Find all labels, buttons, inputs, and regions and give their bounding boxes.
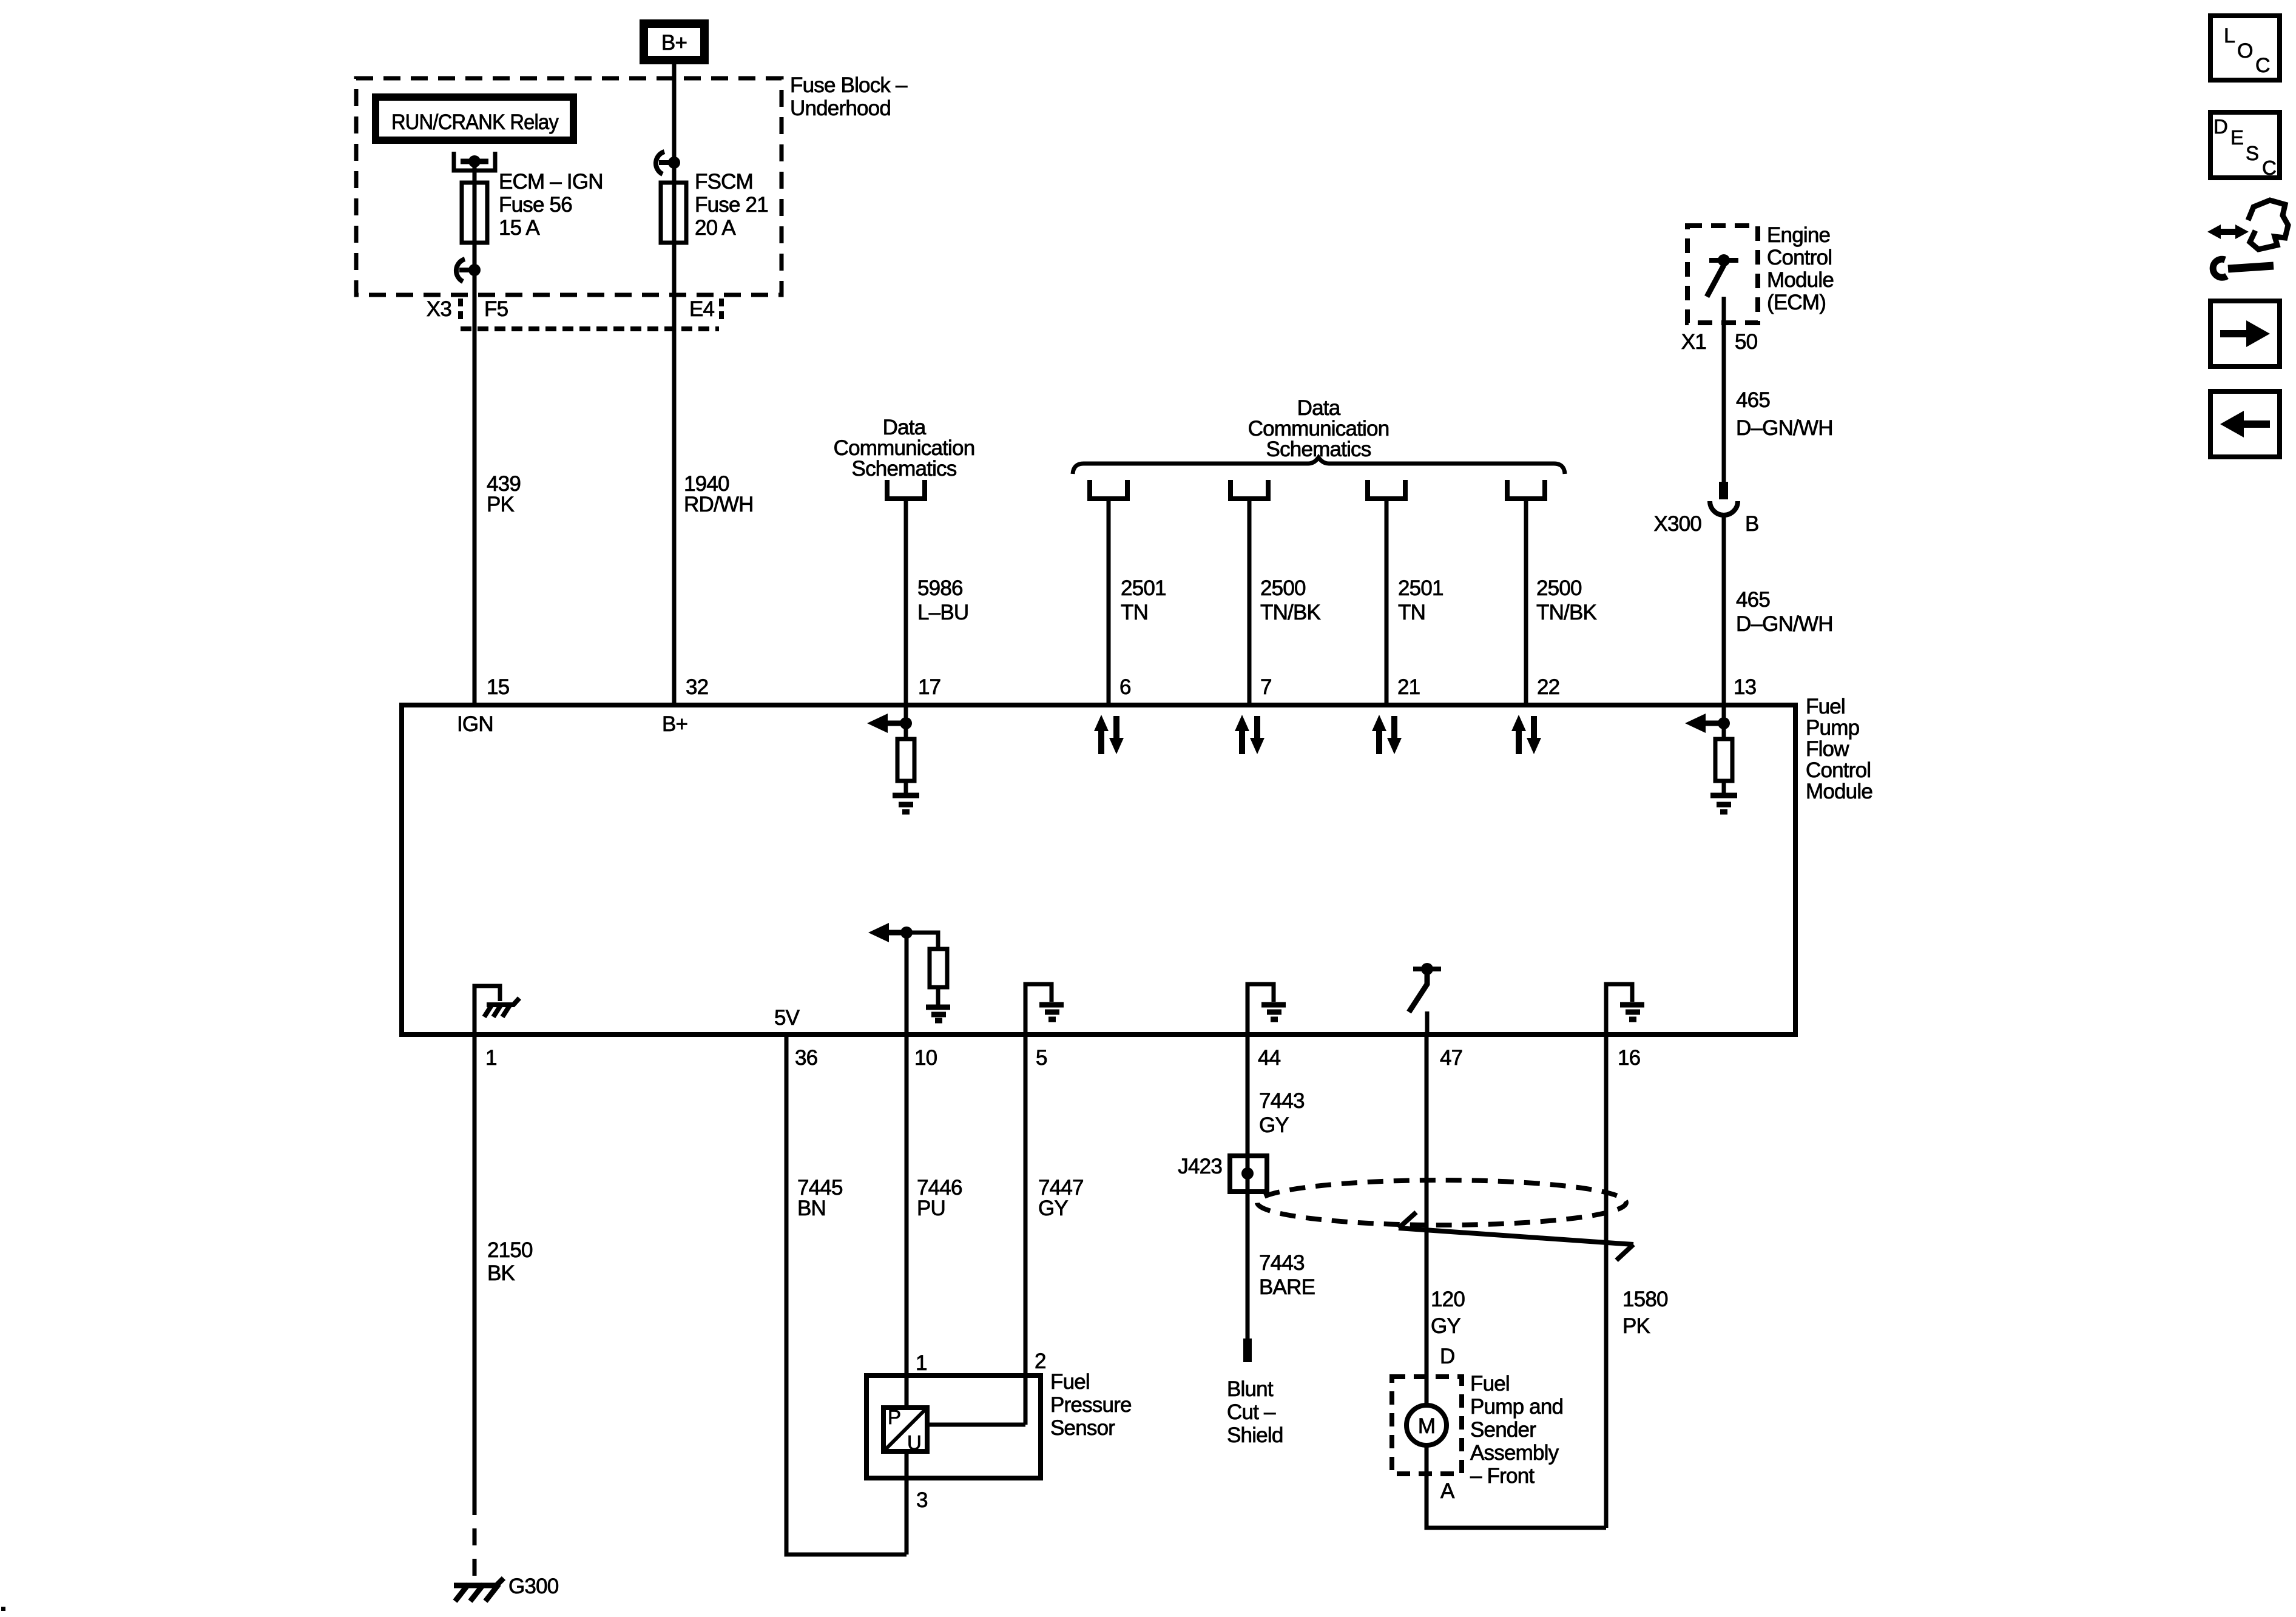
shield dashed ellipse: [1257, 1180, 1626, 1225]
svg-text:Blunt: Blunt: [1227, 1377, 1274, 1401]
svg-text:44: 44: [1258, 1046, 1281, 1070]
RUN/CRANK relay box: [376, 97, 573, 140]
wire 7447 GY pin 5 to sensor pin 2: [1024, 1035, 1028, 1425]
svg-text:6: 6: [1119, 675, 1131, 699]
svg-text:Fuel: Fuel: [1050, 1370, 1090, 1394]
svg-text:50: 50: [1735, 330, 1758, 354]
svg-text:BN: BN: [797, 1197, 826, 1220]
svg-text:Pump and: Pump and: [1470, 1395, 1563, 1419]
svg-text:Assembly: Assembly: [1470, 1441, 1559, 1465]
internal ground pin 5: [1025, 984, 1064, 1035]
svg-text:Engine: Engine: [1767, 223, 1830, 247]
inline connector X300: [1653, 482, 1758, 536]
wire 439 PK from relay through fuse 56 to pin 15: [473, 161, 477, 705]
internal termination pin 17: arrow resistor ground: [867, 705, 919, 812]
svg-text:2501: 2501: [1121, 576, 1166, 600]
svg-text:TN/BK: TN/BK: [1260, 601, 1321, 624]
svg-text:15 A: 15 A: [499, 216, 540, 240]
wire label 465 D-GN/WH: [1736, 388, 1833, 440]
svg-text:ECM – IGN: ECM – IGN: [499, 170, 603, 194]
wire label 2501 TN: [1398, 576, 1443, 624]
svg-text:Sensor: Sensor: [1050, 1416, 1115, 1440]
page artifact dot: [1, 1607, 5, 1611]
sidebar icon diagnostic wrench: [2207, 200, 2288, 277]
svg-text:O: O: [2237, 39, 2253, 62]
svg-text:S: S: [2246, 142, 2258, 164]
internal chassis ground pin 1: [474, 986, 519, 1035]
wire label 7443 GY: [1259, 1089, 1305, 1137]
svg-text:P: P: [888, 1406, 900, 1428]
wire label 120 GY: [1431, 1288, 1465, 1338]
svg-text:Pump: Pump: [1806, 716, 1859, 740]
internal 5V reference pin 10: arrow resistor ground: [868, 923, 950, 1035]
off page connector wire 21: [1368, 480, 1405, 499]
svg-text:RD/WH: RD/WH: [684, 493, 754, 516]
svg-text:GY: GY: [1259, 1113, 1289, 1137]
svg-text:32: 32: [686, 675, 708, 699]
wire sensor output to pin 2 leg: [927, 1423, 1025, 1427]
svg-text:TN: TN: [1121, 601, 1148, 624]
svg-text:D–GN/WH: D–GN/WH: [1736, 416, 1833, 440]
svg-text:2150: 2150: [487, 1238, 533, 1262]
svg-text:Control: Control: [1806, 758, 1871, 782]
svg-text:Fuel: Fuel: [1806, 695, 1845, 718]
svg-text:17: 17: [918, 675, 940, 699]
svg-text:Shield: Shield: [1227, 1423, 1283, 1447]
svg-text:465: 465: [1736, 388, 1770, 412]
svg-text:Fuse 56: Fuse 56: [499, 193, 572, 217]
svg-text:1580: 1580: [1622, 1288, 1668, 1311]
svg-text:Module: Module: [1806, 780, 1872, 803]
svg-text:– Front: – Front: [1470, 1464, 1535, 1488]
internal driver switch pin 47: [1409, 963, 1441, 1035]
svg-text:1: 1: [916, 1351, 927, 1375]
wire 465 D-GN/WH upper: [1722, 297, 1726, 484]
internal ground pin 44: [1248, 984, 1286, 1035]
twisted lead arrow: [1399, 1212, 1633, 1260]
svg-text:M: M: [1418, 1414, 1435, 1438]
fuse ECM-IGN Fuse 56 15A: [462, 170, 603, 243]
svg-text:D–GN/WH: D–GN/WH: [1736, 612, 1833, 636]
label data communication schematics left: [834, 416, 975, 481]
ECM dashed box: [1687, 226, 1758, 323]
svg-text:X3: X3: [427, 297, 451, 321]
svg-text:21: 21: [1397, 675, 1420, 699]
svg-text:Schematics: Schematics: [852, 457, 957, 481]
ground G300: [454, 1575, 559, 1601]
svg-text:7443: 7443: [1259, 1089, 1305, 1113]
svg-text:2500: 2500: [1536, 576, 1582, 600]
svg-text:F5: F5: [484, 297, 508, 321]
svg-text:Fuse Block –: Fuse Block –: [790, 73, 908, 97]
svg-text:X1: X1: [1681, 330, 1706, 354]
fuel pump flow control module box: [402, 705, 1795, 1035]
svg-text:J423: J423: [1178, 1155, 1222, 1178]
fuel pressure sensor box: [866, 1376, 1041, 1478]
svg-text:L–BU: L–BU: [917, 601, 968, 624]
label Engine Control Module (ECM): [1767, 223, 1834, 314]
svg-text:(ECM): (ECM): [1767, 291, 1826, 314]
wire label 7446 PU: [917, 1176, 962, 1220]
connector X3 labels F5 E4: [427, 297, 721, 329]
svg-text:Fuel: Fuel: [1470, 1372, 1510, 1396]
svg-text:E: E: [2230, 126, 2243, 149]
svg-text:PU: PU: [917, 1197, 945, 1220]
fuse block underhood dashed box: [356, 78, 782, 295]
relay output terminal bracket: [454, 152, 495, 170]
wire 120 GY pin 47 to pump D: [1425, 1035, 1429, 1405]
svg-text:BARE: BARE: [1259, 1275, 1315, 1299]
label Fuel Pump and Sender Assembly Front: [1470, 1372, 1563, 1488]
wire 465 D-GN/WH lower to pin 13: [1722, 515, 1726, 705]
wire pump A return: [1427, 1445, 1606, 1528]
brace over data wires: [1073, 457, 1565, 474]
svg-text:B+: B+: [661, 31, 687, 55]
svg-text:Fuse 21: Fuse 21: [695, 193, 768, 217]
svg-text:L: L: [2224, 24, 2235, 47]
svg-text:FSCM: FSCM: [695, 170, 753, 194]
svg-text:47: 47: [1440, 1046, 1462, 1070]
svg-text:Module: Module: [1767, 268, 1834, 292]
svg-text:Flow: Flow: [1806, 737, 1849, 761]
svg-text:B+: B+: [662, 712, 687, 736]
wire 1940 RD/WH from B+ through fuse 21 to pin 32: [672, 64, 677, 705]
svg-text:7443: 7443: [1259, 1251, 1305, 1275]
sidebar icon DESC: [2210, 112, 2280, 179]
wire 2150 BK pin 1 to G300: [473, 1035, 477, 1584]
clip terminal on wire F5: [456, 259, 481, 282]
svg-text:GY: GY: [1431, 1314, 1460, 1338]
connector X1 pin 50 labels: [1681, 330, 1758, 354]
svg-text:20 A: 20 A: [695, 216, 736, 240]
svg-text:RUN/CRANK Relay: RUN/CRANK Relay: [391, 110, 559, 134]
power feed B+ box: [644, 24, 704, 60]
svg-text:15: 15: [487, 675, 509, 699]
wire 2501 TN pin 21: [1385, 499, 1389, 705]
wire label 5986 L-BU: [917, 576, 968, 624]
clip terminal on fuse 21 feed: [656, 152, 680, 174]
wire label 1940 RD/WH: [684, 472, 754, 516]
fuse FSCM Fuse 21 20A: [661, 170, 768, 243]
svg-text:22: 22: [1537, 675, 1559, 699]
wire label 2500 TN/BK: [1260, 576, 1321, 624]
svg-text:1: 1: [485, 1046, 497, 1070]
off page connector wire 6: [1090, 480, 1127, 499]
svg-text:Cut –: Cut –: [1227, 1400, 1276, 1424]
svg-text:X300: X300: [1653, 512, 1701, 536]
wire label 2500 TN/BK: [1536, 576, 1597, 624]
label Blunt Cut Shield: [1227, 1377, 1283, 1447]
wire 2501 TN pin 6: [1107, 499, 1111, 705]
sidebar icon arrow left: [2210, 391, 2280, 457]
wire 7443 GY pin 44: [1246, 1035, 1250, 1338]
svg-text:5: 5: [1036, 1046, 1047, 1070]
data arrows pin 6: [1094, 715, 1124, 754]
svg-text:B: B: [1745, 512, 1759, 536]
svg-text:D: D: [1440, 1345, 1454, 1368]
sidebar icon LOC: [2210, 16, 2280, 80]
internal ground pin 16: [1606, 984, 1644, 1035]
splice J423: [1178, 1155, 1267, 1192]
label Fuse Block Underhood: [790, 73, 908, 120]
label Fuel Pressure Sensor: [1050, 1370, 1132, 1440]
data arrows pin 21: [1372, 715, 1402, 754]
fuel pump motor M: [1406, 1405, 1447, 1445]
off page connector wire 7: [1231, 480, 1268, 499]
svg-text:C: C: [2262, 157, 2276, 179]
wire label 7447 GY: [1038, 1176, 1084, 1220]
wire label 465 D-GN/WH: [1736, 588, 1833, 636]
svg-text:E4: E4: [689, 297, 715, 321]
label Fuel Pump Flow Control Module: [1806, 695, 1872, 803]
svg-text:36: 36: [795, 1046, 817, 1070]
wire 5986 L-BU to pin 17: [904, 499, 908, 705]
wire label 2150 BK: [487, 1238, 533, 1285]
wire 7446 PU pin 10 to sensor pin 1: [905, 1035, 909, 1555]
svg-text:PK: PK: [487, 493, 515, 516]
svg-text:2500: 2500: [1260, 576, 1306, 600]
wire label 1580 PK: [1622, 1288, 1668, 1338]
svg-text:PK: PK: [1622, 1314, 1650, 1338]
blunt cut shield end: [1243, 1338, 1252, 1362]
wire 2500 TN/BK pin 22: [1524, 499, 1528, 705]
svg-text:Pressure: Pressure: [1050, 1393, 1132, 1417]
sidebar icon arrow right: [2210, 301, 2280, 366]
wire 1580 PK pin 16: [1604, 1035, 1609, 1528]
svg-text:TN/BK: TN/BK: [1536, 601, 1597, 624]
svg-text:Sender: Sender: [1470, 1418, 1536, 1442]
off page connector wire 22: [1507, 480, 1545, 499]
off page connector wire 17: [887, 480, 925, 499]
svg-text:3: 3: [916, 1488, 928, 1512]
svg-text:G300: G300: [508, 1575, 559, 1598]
svg-text:GY: GY: [1038, 1197, 1068, 1220]
wire label 2501 TN: [1121, 576, 1166, 624]
svg-text:U: U: [907, 1431, 921, 1454]
svg-text:D: D: [2213, 115, 2227, 138]
data arrows pin 7: [1235, 715, 1264, 754]
svg-text:A: A: [1440, 1479, 1455, 1503]
svg-text:TN: TN: [1398, 601, 1425, 624]
svg-text:BK: BK: [487, 1261, 515, 1285]
svg-text:C: C: [2255, 54, 2270, 77]
svg-text:Underhood: Underhood: [790, 96, 891, 120]
wire 7445 BN pin 36: [786, 1035, 907, 1555]
svg-text:Control: Control: [1767, 246, 1832, 269]
svg-text:2501: 2501: [1398, 576, 1443, 600]
svg-text:2: 2: [1035, 1349, 1046, 1373]
ECM driver contact: [1707, 254, 1738, 297]
svg-text:IGN: IGN: [457, 712, 493, 736]
fuel pump dashed box: [1392, 1377, 1462, 1474]
wire label 7443 BARE: [1259, 1251, 1315, 1299]
svg-text:120: 120: [1431, 1288, 1465, 1311]
svg-text:465: 465: [1736, 588, 1770, 612]
wire label 439 PK: [487, 472, 521, 516]
data arrows pin 22: [1511, 715, 1541, 754]
svg-text:13: 13: [1734, 675, 1756, 699]
pressure transducer P/U element: [883, 1406, 927, 1454]
internal termination pin 13: arrow resistor ground: [1685, 705, 1737, 812]
wire 2500 TN/BK pin 7: [1248, 499, 1252, 705]
wire label 7445 BN: [797, 1176, 843, 1220]
label data communication schematics center: [1248, 396, 1389, 461]
svg-text:10: 10: [914, 1046, 937, 1070]
svg-text:5986: 5986: [917, 576, 963, 600]
svg-text:7: 7: [1260, 675, 1272, 699]
svg-text:5V: 5V: [774, 1006, 800, 1030]
svg-text:16: 16: [1618, 1046, 1640, 1070]
